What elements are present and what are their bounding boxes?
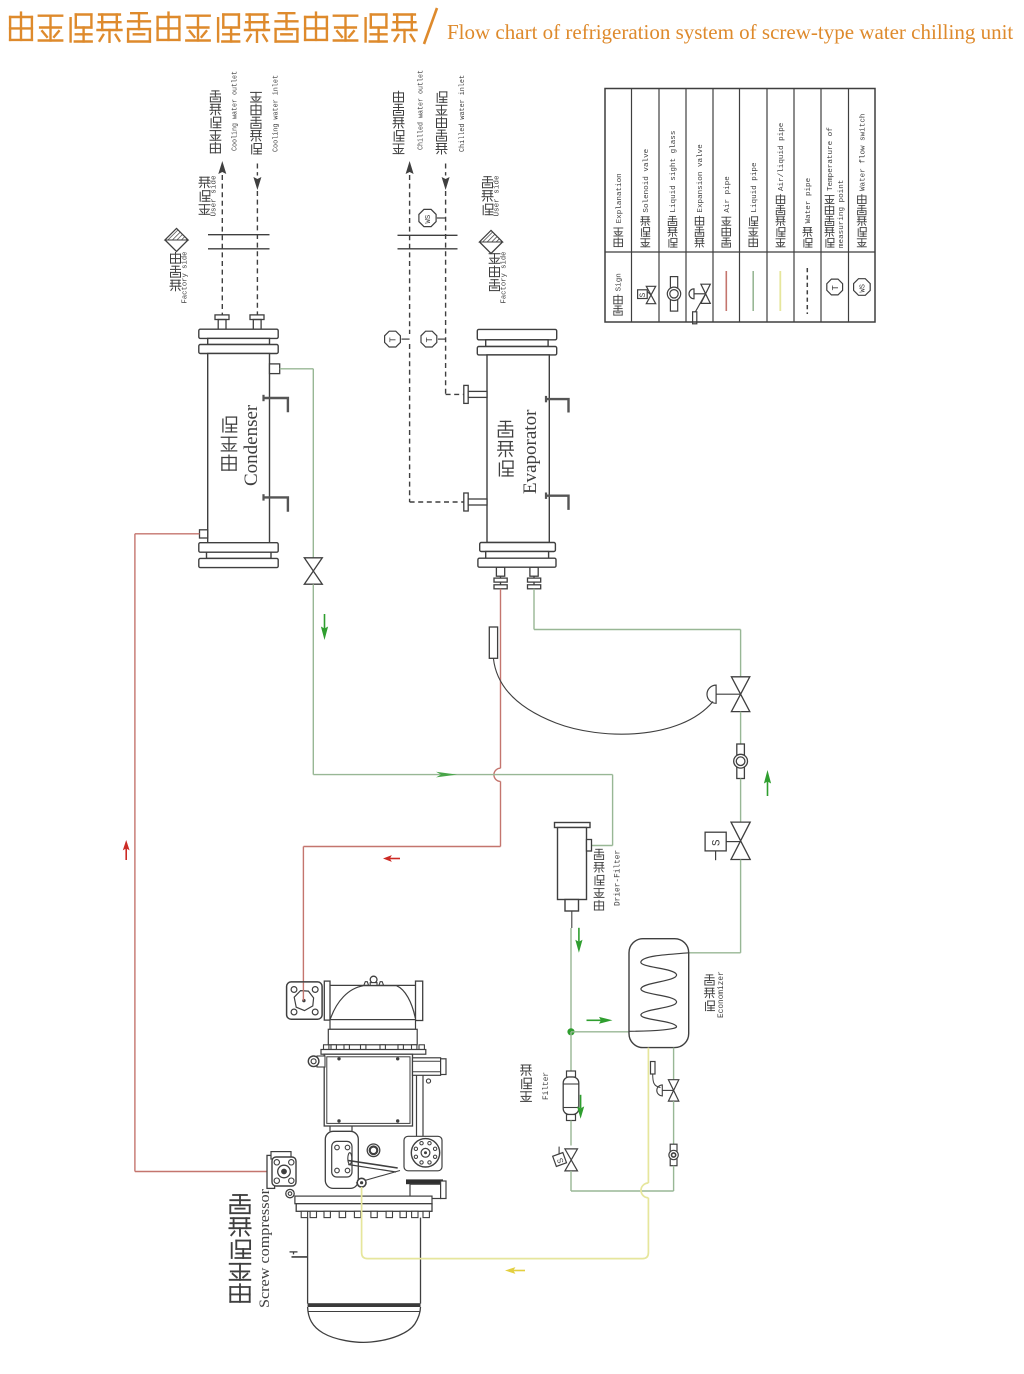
legend col10 header 水流量开关 Water flow switch	[857, 114, 867, 247]
compressor neck section	[328, 1020, 417, 1045]
compressor base feet row	[301, 1211, 429, 1217]
expansion valve sensing bulb at evaporator suction	[489, 627, 497, 658]
legend air pipe red line sample	[725, 271, 727, 311]
svg-text:S: S	[712, 839, 724, 846]
svg-text:Cooling water inlet: Cooling water inlet	[273, 75, 281, 152]
drier-filter label 干燥过滤器	[594, 900, 603, 910]
legend air/liquid pipe yellow line sample	[779, 271, 781, 311]
legend table frame	[605, 89, 875, 323]
chilled water inlet label 冷媒水进口	[436, 75, 467, 154]
svg-text:Air/liquid pipe: Air/liquid pipe	[778, 122, 786, 191]
title separator slash	[424, 8, 437, 44]
cooling water inlet dashed pipe with down arrow	[253, 164, 261, 315]
legend liquid pipe green line sample	[752, 271, 754, 311]
compressor front foot bracket	[286, 1189, 294, 1197]
factory/user boundary lines (condenser side)	[208, 235, 270, 249]
junction node dot	[567, 1028, 574, 1035]
legend expansion valve symbol	[689, 284, 710, 324]
yellow flow arrow toward compressor	[505, 1267, 515, 1274]
svg-text:Factory side: Factory side	[501, 251, 509, 303]
evaporator suction outlet stub with union flanges (red side)	[494, 567, 507, 589]
svg-text:Solenoid valve: Solenoid valve	[643, 148, 651, 212]
liquid sight glass main line	[734, 744, 748, 779]
user side label 用户侧 (evaporator)	[482, 175, 502, 216]
legend col1 header 说明 Explanation	[614, 173, 624, 246]
evaporator bottom flange plates	[478, 543, 556, 568]
green pipe solenoid valve to economizer coil inlet	[689, 860, 741, 953]
svg-text:Liquid pipe: Liquid pipe	[751, 162, 759, 213]
green flow arrow down after valve	[321, 626, 328, 640]
svg-text:Chilled water inlet: Chilled water inlet	[459, 75, 467, 152]
svg-text:T: T	[831, 285, 841, 291]
svg-text:Chilled water outlet: Chilled water outlet	[418, 70, 426, 150]
air/liquid yellow pipe: economizer to compressor economizer port	[362, 1048, 649, 1259]
svg-text:Water pipe: Water pipe	[805, 177, 813, 223]
evaporator shell body	[487, 355, 549, 543]
title Chinese: 螺杆式冷水机组制冷系统流程图	[10, 13, 416, 42]
red flow arrow up to condenser	[123, 840, 130, 850]
injection expansion valve	[657, 1080, 679, 1101]
green flow arrow down above junction	[575, 940, 582, 953]
red pipe overdraw into compressor discharge flange	[302, 983, 304, 1001]
evaporator label 蒸发器	[499, 461, 513, 476]
green pipe expansion valve to sight glass	[740, 712, 742, 744]
svg-text:Drier-Filter: Drier-Filter	[615, 850, 623, 906]
compressor oil separator shell	[308, 1218, 421, 1343]
legend water pipe dashed line sample	[806, 268, 808, 314]
svg-text:User side: User side	[211, 175, 219, 216]
green flow arrow right into economizer	[599, 1017, 613, 1024]
compressor economizer inlet bolt (yellow line start)	[357, 1178, 366, 1187]
svg-text:Cooling water outlet: Cooling water outlet	[231, 71, 239, 151]
svg-text:measuring point: measuring point	[838, 180, 846, 248]
legend water flow switch symbol WS	[854, 279, 871, 296]
capillary tube from bulb to expansion valve diaphragm	[493, 658, 713, 734]
liquid sight glass injection line	[669, 1144, 678, 1166]
legend sight glass symbol	[667, 277, 680, 312]
cooling water outlet label 冷却水出口	[210, 71, 240, 153]
legend col3 header 视液镜 Liquid sight glass	[668, 131, 678, 248]
condenser label 冷凝器	[222, 455, 236, 470]
water flow switch WS on chilled inlet	[419, 209, 446, 226]
svg-text:Expansion valve: Expansion valve	[697, 144, 705, 213]
legend col2 header 电磁阀 Solenoid valve	[641, 148, 651, 246]
legend sign cell 标志 Sign	[614, 273, 624, 315]
economizer internal coil	[630, 953, 689, 1032]
svg-text:Economizer: Economizer	[718, 971, 726, 1018]
air pipe red: compressor discharge to condenser	[135, 534, 267, 1172]
green pipe: economizer bottom to injection expansion valve	[673, 1048, 675, 1080]
compressor shaft pump left end	[267, 1152, 296, 1189]
liquid pipe green: valve to drier-filter	[313, 584, 612, 845]
compressor suction housing right flange	[416, 981, 423, 1020]
condenser outlet shut-off valve	[304, 558, 322, 584]
drier-filter outlet line	[571, 911, 573, 928]
legend temperature measuring point symbol T	[827, 279, 843, 295]
svg-text:Flow chart of refrigeration sy: Flow chart of refrigeration system of sc…	[447, 20, 1013, 44]
solenoid valve injection line	[553, 1147, 578, 1171]
economizer label 经济器	[706, 1001, 715, 1011]
svg-text:T: T	[425, 337, 435, 343]
svg-text:User side: User side	[494, 175, 502, 216]
factory side label 工厂侧 (condenser)	[170, 251, 190, 303]
evaporator top flange plates	[477, 329, 556, 355]
chilled water outlet dashed pipe with up arrow	[406, 161, 414, 502]
evaporator support bracket lower	[546, 493, 569, 510]
svg-text:T: T	[389, 337, 399, 343]
compressor drive linkage band	[348, 1161, 400, 1184]
svg-text:WS: WS	[859, 284, 867, 292]
svg-text:S: S	[639, 293, 648, 298]
legend col4 header 膨胀阀 Expansion valve	[695, 144, 705, 247]
filter body	[563, 1071, 579, 1121]
green flow arrow down after filter	[577, 1106, 584, 1118]
green pipe: injection valve to sight glass 2	[673, 1101, 675, 1144]
green pipe: sight glass 2 down and left	[571, 1166, 674, 1191]
user side label 用户侧 (condenser)	[199, 175, 219, 216]
svg-text:Factory side: Factory side	[182, 251, 190, 303]
condenser discharge-gas inlet nozzle (red side)	[200, 530, 208, 538]
condenser support bracket upper	[264, 395, 288, 413]
svg-text:Liquid sight glass: Liquid sight glass	[670, 131, 678, 213]
compressor motor top plate with bolt tabs	[321, 1045, 426, 1054]
condenser liquid outlet nozzle (green side)	[270, 364, 280, 374]
cooling water outlet dashed pipe with up arrow	[218, 161, 226, 315]
liquid pipe green: junction down to filter	[570, 1032, 572, 1071]
cooling water inlet label 冷却水进口	[251, 75, 281, 154]
solenoid valve main liquid line	[705, 822, 750, 860]
chilled water dashed elbows into evaporator nozzles	[410, 394, 464, 502]
green flow arrow up beside sight glass	[764, 770, 771, 784]
svg-text:Water flow switch: Water flow switch	[860, 114, 868, 191]
temperature point T1 on chilled outlet	[385, 331, 410, 347]
temperature point T2 on chilled inlet	[421, 331, 446, 347]
compressor base plates	[295, 1196, 432, 1211]
filter label 过滤器	[521, 1092, 532, 1102]
red flow arrow toward compressor	[383, 855, 392, 862]
svg-text:Filter: Filter	[543, 1072, 551, 1100]
legend col8 header 水管 Water pipe	[803, 177, 813, 247]
liquid pipe green: junction to economizer shell	[571, 1031, 629, 1033]
evaporator water nozzle upper with flange	[464, 385, 487, 403]
condenser top flange plates	[199, 329, 278, 353]
svg-text:Air pipe: Air pipe	[724, 176, 732, 213]
svg-text:Sign: Sign	[616, 273, 624, 291]
compressor oil port circle	[367, 1144, 380, 1157]
svg-text:Temperature of: Temperature of	[827, 127, 835, 191]
condenser bottom flange plates	[199, 543, 278, 568]
evaporator support bracket upper	[546, 396, 569, 413]
evaporator liquid feed green pipe to expansion valve	[534, 589, 741, 677]
svg-text:Condenser: Condenser	[241, 404, 262, 486]
compressor right lower cylinder	[406, 1179, 446, 1198]
chilled water inlet dashed pipe with down arrow	[442, 164, 450, 395]
legend solenoid valve symbol	[638, 286, 656, 303]
compressor oil filter housing	[325, 1126, 358, 1188]
drier-filter body	[555, 823, 592, 912]
evaporator liquid inlet stub with union flanges (green side)	[528, 567, 541, 589]
compressor discharge flange square with bolt holes	[287, 982, 323, 1019]
legend col5 header 气态管 Air pipe	[722, 176, 732, 247]
compressor motor body	[324, 1054, 412, 1126]
green flow arrow right on horizontal liquid line	[436, 772, 457, 778]
svg-text:Evaporator: Evaporator	[520, 409, 541, 494]
screw compressor label 螺杆压缩机	[230, 1284, 249, 1302]
compressor suction housing left flange	[324, 981, 330, 1020]
compressor right upper cylinder	[413, 1058, 447, 1076]
svg-text:Screw compressor: Screw compressor	[257, 1189, 273, 1308]
evaporator water nozzle lower with flange	[464, 493, 487, 511]
air pipe red: evaporator to compressor suction	[303, 589, 500, 1001]
factory side label 工厂侧 (evaporator)	[489, 251, 509, 303]
condenser support bracket lower	[264, 494, 288, 512]
legend col6 header 液态管 Liquid pipe	[749, 162, 759, 247]
green pipe: filter to solenoid valve 2	[570, 1121, 572, 1146]
factory/user boundary lines (evaporator side)	[398, 235, 458, 249]
compressor pump face plate with bolt pattern	[332, 1141, 352, 1177]
green pipe sight glass to solenoid valve	[740, 779, 742, 823]
compressor oil drain stub	[290, 1252, 308, 1257]
condenser shell body	[208, 354, 270, 543]
compressor right support strut	[417, 1075, 431, 1136]
green pipe: solenoid 2 down to bottom run	[570, 1171, 572, 1191]
liquid pipe green: condenser outlet down to shut-off valve	[280, 369, 314, 558]
legend col9 header 温度测量点 Temperature of measuring point	[825, 127, 846, 248]
boundary diamond marker (evaporator side)	[480, 231, 503, 254]
legend col7 header 气液两态管 Air/liquid pipe	[776, 122, 786, 247]
compressor suction housing bell	[330, 985, 416, 1019]
compressor lifting lug left	[308, 1056, 325, 1067]
svg-text:Explanation: Explanation	[616, 173, 624, 223]
compressor eyebolt and lugs on top	[364, 976, 384, 985]
thermal expansion valve main	[707, 677, 750, 712]
svg-text:WS: WS	[425, 215, 433, 224]
chilled water outlet label 冷媒水出口	[393, 70, 426, 154]
condenser water nozzles	[215, 315, 264, 329]
injection expansion valve bulb and capillary	[651, 1062, 661, 1088]
boundary diamond marker (condenser side)	[165, 229, 188, 252]
economizer vessel	[629, 939, 689, 1048]
compressor economizer port flange (bolted circle)	[404, 1136, 442, 1171]
liquid pipe green: drier-filter down to junction	[570, 928, 572, 1032]
